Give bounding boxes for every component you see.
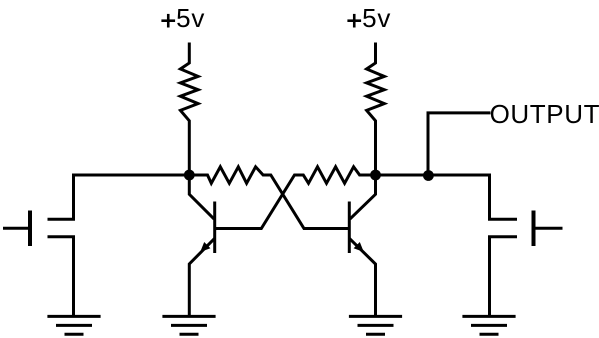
svg-text:OUTPUT: OUTPUT (490, 99, 599, 129)
svg-text:5v: 5v (362, 3, 391, 33)
svg-text:5v: 5v (176, 3, 205, 33)
